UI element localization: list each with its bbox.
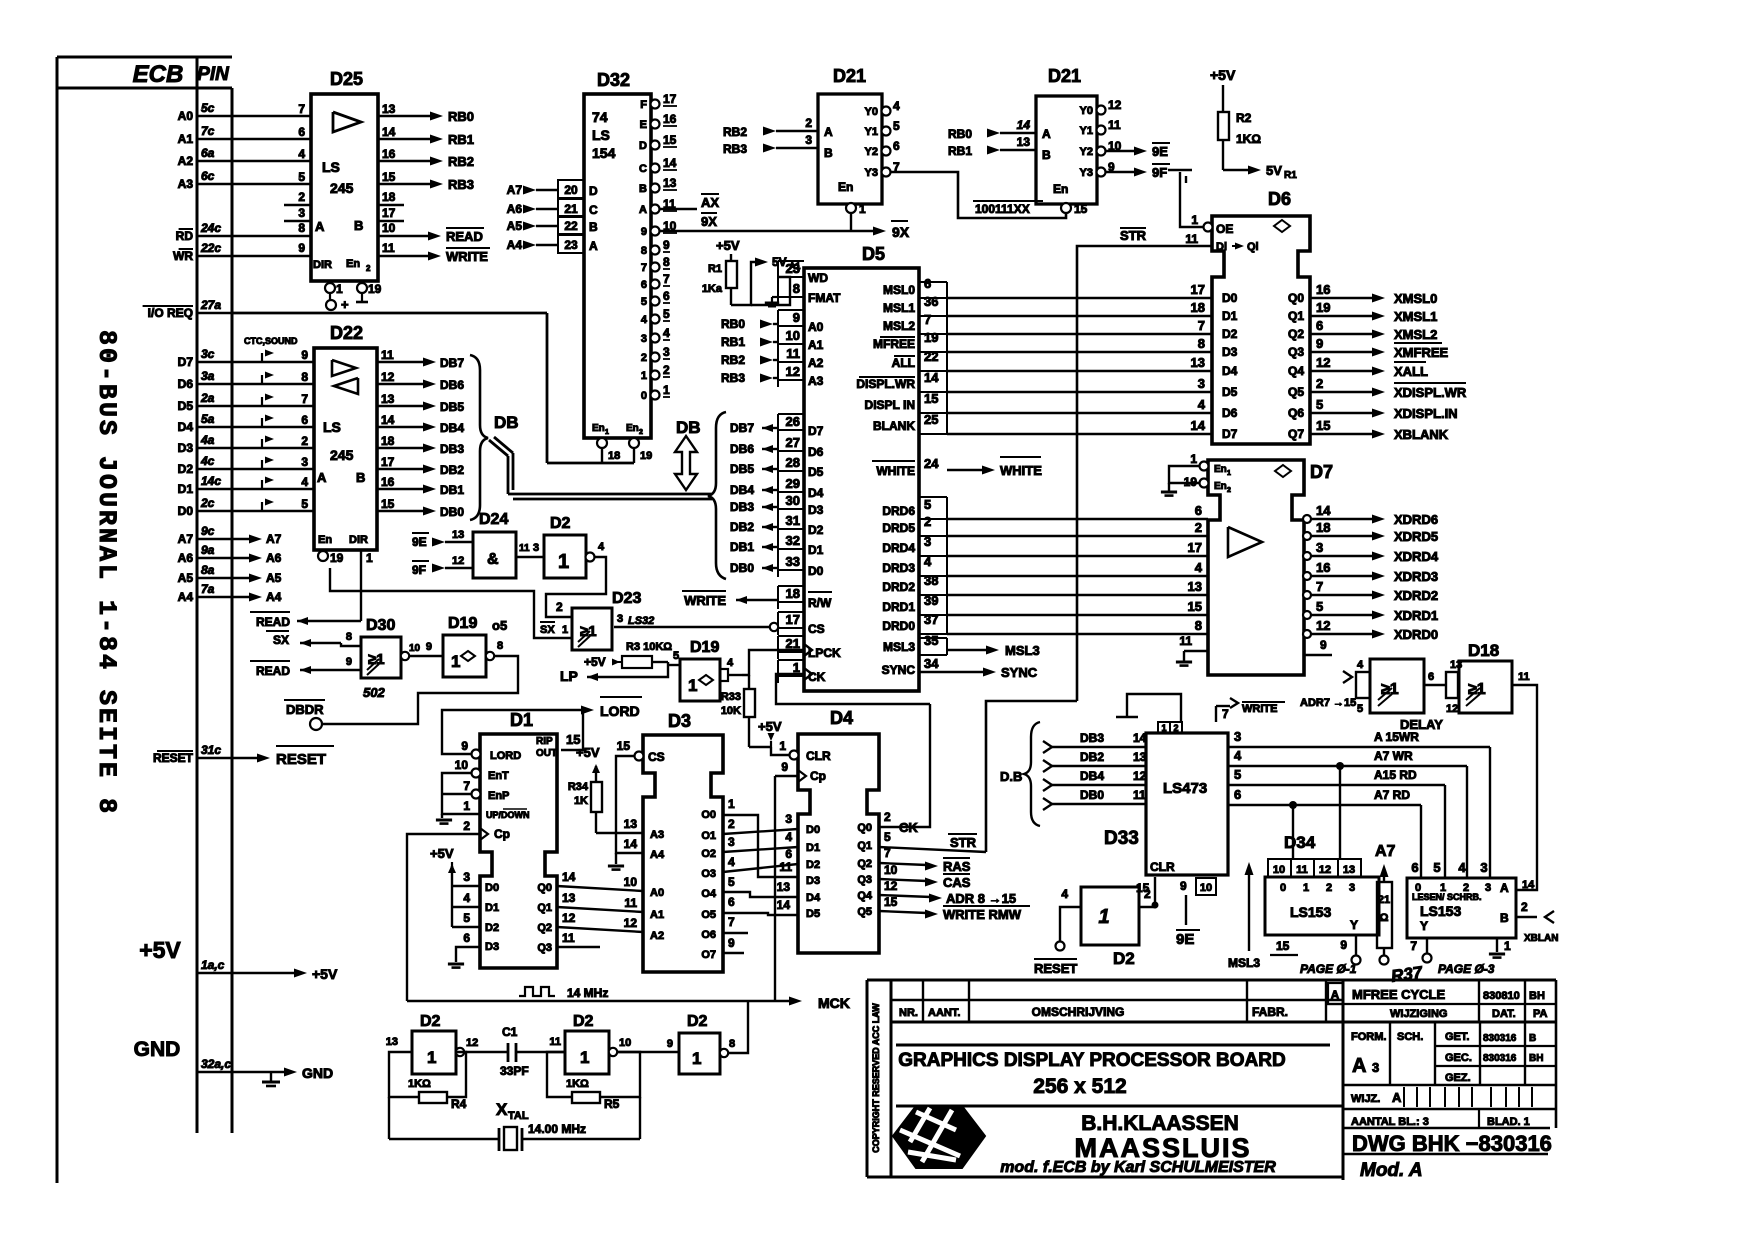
svg-text:15: 15 bbox=[1316, 418, 1330, 433]
svg-text:D3: D3 bbox=[668, 711, 691, 731]
wire Q2 to A2 bbox=[557, 911, 643, 932]
svg-text:28: 28 bbox=[786, 455, 800, 470]
svg-text:GRAPHICS DISPLAY PROCESSOR: GRAPHICS DISPLAY PROCESSOR BOARD bbox=[898, 1050, 1285, 1071]
svg-text:D2: D2 bbox=[178, 462, 194, 476]
power +5V R2 bbox=[1210, 67, 1236, 112]
D19 out bbox=[486, 640, 503, 660]
svg-text:D1: D1 bbox=[510, 710, 533, 730]
svg-text:XMSL2: XMSL2 bbox=[1394, 327, 1437, 342]
svg-text:O2: O2 bbox=[701, 848, 716, 860]
svg-text:31: 31 bbox=[786, 513, 800, 528]
node D6 ECB pin 3a bbox=[178, 369, 232, 391]
svg-text:7: 7 bbox=[298, 102, 305, 116]
title main text bbox=[898, 1050, 1285, 1098]
wire D22 pin 16 to DB1 bbox=[377, 475, 464, 497]
svg-text:15: 15 bbox=[617, 739, 631, 753]
svg-text:DB5: DB5 bbox=[440, 400, 464, 414]
label ADR7-15 input bbox=[1300, 671, 1356, 709]
D3 O6 stub bbox=[723, 915, 748, 933]
svg-text:2: 2 bbox=[641, 352, 647, 364]
svg-text:3: 3 bbox=[463, 870, 470, 884]
wire O2 to D4 D1 bbox=[723, 830, 798, 852]
svg-text:D4: D4 bbox=[1222, 364, 1238, 378]
wire Q1 STR bbox=[879, 246, 1212, 852]
D32 output pins bbox=[639, 92, 677, 402]
svg-text:B: B bbox=[1500, 911, 1509, 925]
svg-text:A3: A3 bbox=[178, 177, 194, 191]
svg-text:19: 19 bbox=[368, 282, 382, 296]
svg-text:9: 9 bbox=[461, 739, 468, 753]
svg-text:Y3: Y3 bbox=[865, 167, 878, 179]
svg-text:D3: D3 bbox=[1222, 345, 1238, 359]
svg-text:Q4: Q4 bbox=[857, 890, 873, 902]
svg-text:CLR: CLR bbox=[806, 749, 831, 763]
D2 ff pin 2 to D33 CLR bbox=[1139, 877, 1159, 909]
svg-text:27a: 27a bbox=[200, 298, 221, 312]
wire D-bus to D22 pin 4 bbox=[232, 475, 314, 489]
svg-text:8: 8 bbox=[729, 1038, 735, 1050]
svg-text:WHITE: WHITE bbox=[1000, 463, 1042, 478]
svg-text:19: 19 bbox=[924, 330, 938, 345]
label R37 bbox=[1390, 963, 1425, 986]
svg-text:I/O REQ: I/O REQ bbox=[148, 306, 193, 320]
svg-text:RESET: RESET bbox=[276, 751, 326, 768]
svg-text:12: 12 bbox=[624, 916, 638, 930]
svg-text:LS473: LS473 bbox=[1163, 780, 1207, 797]
svg-text:3a: 3a bbox=[201, 369, 215, 383]
wire RD to D25 pin 8 bbox=[232, 221, 311, 236]
wire D25 pin 14 to RB1 bbox=[378, 125, 474, 147]
svg-text:+5V: +5V bbox=[139, 937, 181, 963]
svg-text:5: 5 bbox=[1316, 599, 1323, 614]
svg-text:En: En bbox=[318, 534, 332, 546]
svg-text:5: 5 bbox=[673, 650, 679, 662]
D22 DIR pin 1 bbox=[361, 550, 373, 565]
svg-text:A4: A4 bbox=[266, 590, 282, 604]
DB bus double line to D5 brace bbox=[489, 437, 712, 499]
wire delay mid bbox=[1424, 671, 1447, 685]
wire Q3 CAS bbox=[879, 863, 971, 890]
svg-text:9: 9 bbox=[641, 226, 647, 238]
svg-text:4: 4 bbox=[728, 855, 735, 869]
svg-text:A: A bbox=[1042, 127, 1051, 141]
ground D1 D3pin bbox=[448, 947, 480, 968]
resistor R34 1K bbox=[568, 781, 602, 833]
gate D2 osc2 bbox=[549, 1013, 631, 1074]
svg-text:D6: D6 bbox=[1222, 406, 1238, 420]
node D4 ECB pin 5a bbox=[178, 412, 232, 434]
svg-text:13: 13 bbox=[1133, 750, 1147, 764]
svg-text:AANTAL BL.: 3: AANTAL BL.: 3 bbox=[1351, 1116, 1429, 1128]
node A0 ECB pin 5c bbox=[178, 101, 232, 123]
svg-text:9: 9 bbox=[1316, 336, 1323, 351]
svg-text:BH: BH bbox=[1529, 1053, 1543, 1064]
svg-text:13: 13 bbox=[382, 102, 396, 116]
D1 Q3 stub bbox=[557, 931, 600, 947]
svg-text:O3: O3 bbox=[701, 868, 716, 880]
journal side text bbox=[92, 330, 121, 816]
svg-text:1: 1 bbox=[1161, 723, 1166, 733]
svg-text:1: 1 bbox=[793, 660, 800, 675]
svg-text:LP: LP bbox=[560, 668, 578, 684]
svg-text:DB0: DB0 bbox=[1080, 788, 1104, 802]
svg-text:DRD6: DRD6 bbox=[882, 504, 915, 518]
gate D23 OR bbox=[572, 590, 641, 650]
svg-text:14 MHz: 14 MHz bbox=[567, 986, 608, 1000]
svg-text:1: 1 bbox=[779, 739, 786, 753]
svg-text:4: 4 bbox=[1195, 560, 1203, 575]
wire D24 to D2inv bbox=[516, 542, 544, 557]
svg-text:NR.: NR. bbox=[899, 1007, 918, 1019]
svg-text:WR: WR bbox=[173, 249, 193, 263]
svg-text:RB1: RB1 bbox=[721, 335, 745, 349]
svg-text:D24: D24 bbox=[479, 511, 508, 528]
svg-text:DB6: DB6 bbox=[440, 378, 464, 392]
svg-text:A0: A0 bbox=[178, 109, 194, 123]
svg-text:D2: D2 bbox=[485, 922, 499, 934]
svg-text:4: 4 bbox=[1061, 887, 1068, 901]
D6 Di pin 11 bbox=[1185, 232, 1198, 246]
svg-text:GET.: GET. bbox=[1445, 1031, 1469, 1043]
title block grid left bbox=[867, 980, 1556, 1180]
svg-text:1: 1 bbox=[562, 624, 568, 636]
D34 Y out pin 9 bbox=[1340, 935, 1360, 965]
svg-text:A2: A2 bbox=[808, 356, 824, 370]
net label 100111XX bbox=[973, 201, 1043, 216]
label MSL3 up bbox=[1228, 862, 1260, 970]
wire MCK line bbox=[407, 995, 850, 1011]
svg-text:1KΩ: 1KΩ bbox=[566, 1078, 589, 1090]
svg-text:5V: 5V bbox=[1266, 163, 1282, 178]
svg-text:B: B bbox=[1042, 148, 1051, 162]
node 1a,c ECB pin 1a,c bbox=[197, 958, 232, 973]
svg-text:XDRD6: XDRD6 bbox=[1394, 512, 1438, 527]
svg-text:Q1: Q1 bbox=[1288, 309, 1304, 323]
svg-text:A2: A2 bbox=[178, 154, 194, 168]
svg-text:18: 18 bbox=[382, 190, 396, 204]
svg-text:2: 2 bbox=[1463, 882, 1469, 894]
svg-text:5a: 5a bbox=[201, 412, 215, 426]
wire to D34 pin13 bbox=[1339, 766, 1341, 859]
svg-text:1: 1 bbox=[1190, 452, 1197, 466]
D7 pin 11 ground bbox=[1176, 634, 1208, 666]
svg-text:XDRD2: XDRD2 bbox=[1394, 588, 1438, 603]
svg-text:16: 16 bbox=[382, 147, 396, 161]
gate D30 OR bbox=[361, 617, 401, 700]
wire D25 pin 16 to RB2 bbox=[378, 147, 474, 169]
svg-text:2: 2 bbox=[366, 264, 371, 273]
svg-text:5: 5 bbox=[641, 296, 647, 308]
svg-text:PAGE Ø-3: PAGE Ø-3 bbox=[1438, 962, 1495, 976]
svg-text:17: 17 bbox=[1188, 540, 1202, 555]
wire O4 to D4 D4 bbox=[723, 875, 798, 897]
resistor R33 10K bbox=[721, 675, 755, 747]
wire RB1 to D5 pin 10 bbox=[721, 335, 778, 349]
svg-text:21: 21 bbox=[564, 202, 578, 216]
svg-text:A: A bbox=[1392, 1090, 1402, 1105]
svg-text:D5: D5 bbox=[808, 465, 824, 479]
svg-text:OUT: OUT bbox=[536, 748, 557, 759]
svg-text:6: 6 bbox=[301, 413, 308, 427]
svg-text:2: 2 bbox=[1195, 520, 1202, 535]
svg-text:Cp: Cp bbox=[810, 769, 826, 783]
wire +5V ECB out bbox=[232, 966, 338, 982]
svg-text:D6: D6 bbox=[1268, 189, 1291, 209]
svg-text:DWG BHK −830316: DWG BHK −830316 bbox=[1352, 1131, 1552, 1156]
svg-text:D32: D32 bbox=[597, 70, 630, 90]
svg-text:4: 4 bbox=[663, 326, 670, 340]
svg-text:D7: D7 bbox=[1310, 462, 1333, 482]
svg-text:DB7: DB7 bbox=[440, 356, 464, 370]
svg-text:7: 7 bbox=[1222, 707, 1229, 721]
wire Y3 to 9F bbox=[1106, 164, 1170, 180]
svg-text:DB: DB bbox=[676, 418, 701, 437]
svg-text:9: 9 bbox=[1340, 938, 1347, 952]
svg-text:Cp: Cp bbox=[494, 827, 510, 841]
D5 pin 34 SYNC bbox=[882, 656, 940, 677]
svg-text:3: 3 bbox=[1372, 1060, 1379, 1075]
svg-text:17: 17 bbox=[786, 612, 800, 627]
wire ECB A4 stub bbox=[232, 590, 282, 604]
net STR at D6 bbox=[1120, 228, 1147, 243]
logo hexagon bbox=[893, 1106, 985, 1168]
svg-text:2: 2 bbox=[298, 190, 305, 204]
svg-text:D18: D18 bbox=[1468, 641, 1499, 660]
svg-text:DB4: DB4 bbox=[1080, 769, 1104, 783]
svg-text:WIJZIGING: WIJZIGING bbox=[1390, 1008, 1447, 1020]
svg-text:B: B bbox=[356, 470, 365, 485]
IC LS153 second box bbox=[1407, 878, 1516, 938]
svg-text:D2: D2 bbox=[687, 1013, 708, 1030]
svg-text:12: 12 bbox=[884, 879, 898, 893]
svg-text:1: 1 bbox=[427, 1048, 436, 1067]
wire A-bus to D25 pin 7 bbox=[232, 102, 311, 116]
svg-text:2: 2 bbox=[1227, 487, 1231, 494]
svg-text:DB1: DB1 bbox=[440, 483, 464, 497]
svg-text:R1: R1 bbox=[708, 263, 722, 275]
D33 DB inputs bbox=[1000, 722, 1147, 826]
svg-text:A2: A2 bbox=[650, 930, 664, 942]
svg-text:1: 1 bbox=[451, 652, 460, 671]
wire R/W to WRITE label bbox=[682, 591, 778, 608]
svg-text:26: 26 bbox=[786, 414, 800, 429]
svg-text:14: 14 bbox=[1522, 879, 1535, 891]
svg-text:4: 4 bbox=[463, 891, 470, 905]
svg-text:C1: C1 bbox=[502, 1025, 518, 1039]
svg-text:D2: D2 bbox=[573, 1013, 594, 1030]
svg-text:2: 2 bbox=[1521, 900, 1528, 914]
svg-text:RB2: RB2 bbox=[448, 154, 474, 169]
svg-text:1: 1 bbox=[1191, 213, 1198, 227]
svg-text:SX: SX bbox=[540, 624, 555, 636]
svg-text:D21: D21 bbox=[833, 66, 866, 86]
svg-text:A4: A4 bbox=[178, 590, 194, 604]
svg-text:CS: CS bbox=[648, 750, 665, 764]
D6 inside labels bbox=[1222, 291, 1304, 441]
svg-text:O7: O7 bbox=[701, 949, 716, 961]
svg-text:2: 2 bbox=[1316, 376, 1323, 391]
svg-text:RESET: RESET bbox=[1034, 961, 1077, 976]
svg-text:D2: D2 bbox=[806, 859, 820, 871]
D19 second out pin4 bbox=[720, 657, 742, 681]
svg-text:11: 11 bbox=[381, 348, 394, 362]
D32 En2 pin 19 bbox=[626, 423, 652, 463]
ground FMAT bbox=[765, 297, 779, 306]
wire En/SX to D23 pin1 bbox=[330, 568, 572, 638]
D6 outputs XMSL..XBLANK bbox=[1310, 282, 1467, 442]
svg-text:A: A bbox=[1331, 988, 1340, 1002]
D5 right pins DRD group bbox=[882, 497, 947, 634]
svg-text:7: 7 bbox=[1316, 579, 1323, 594]
D25 DIR pin 1 pull bbox=[325, 282, 349, 312]
wire R1 node to 5VR1 label bbox=[731, 255, 801, 305]
svg-text:6c: 6c bbox=[201, 169, 215, 183]
svg-text:OE: OE bbox=[1216, 222, 1233, 236]
svg-text:15: 15 bbox=[924, 391, 938, 406]
svg-text:13: 13 bbox=[381, 392, 395, 406]
svg-text:DB0: DB0 bbox=[440, 505, 464, 519]
svg-text:7: 7 bbox=[1198, 318, 1205, 333]
label CTC,SOUND bbox=[244, 336, 298, 346]
svg-text:RB3: RB3 bbox=[723, 142, 747, 156]
svg-text:8: 8 bbox=[298, 221, 305, 235]
svg-text:9: 9 bbox=[793, 310, 800, 325]
svg-text:A5: A5 bbox=[178, 571, 194, 585]
svg-text:LS153: LS153 bbox=[1290, 904, 1331, 920]
label GND ECB bbox=[134, 1038, 181, 1061]
power +5V D1 data bbox=[430, 846, 480, 945]
svg-text:RB0: RB0 bbox=[721, 317, 745, 331]
wire I/O REQ to D32 En bbox=[232, 313, 634, 463]
svg-text:16: 16 bbox=[1316, 560, 1330, 575]
resistor R1 1K bbox=[702, 261, 737, 305]
wire D-bus to D22 pin 3 bbox=[232, 455, 314, 469]
svg-text:RB0: RB0 bbox=[448, 109, 474, 124]
wire D22 pin 15 to DB0 bbox=[377, 497, 464, 519]
wire D22 pin 11 to DB7 bbox=[377, 348, 464, 370]
svg-text:4: 4 bbox=[785, 830, 792, 844]
svg-text:D25: D25 bbox=[330, 69, 363, 89]
IC D25 LS245 box bbox=[311, 69, 378, 281]
svg-text:13: 13 bbox=[777, 880, 791, 894]
svg-text:39: 39 bbox=[924, 593, 938, 608]
D34 pin 15 bbox=[1270, 939, 1298, 955]
svg-text:15: 15 bbox=[381, 497, 395, 511]
svg-text:21: 21 bbox=[1378, 894, 1390, 906]
svg-text:1: 1 bbox=[688, 676, 697, 695]
svg-text:D3: D3 bbox=[806, 875, 820, 887]
svg-text:13: 13 bbox=[562, 891, 576, 905]
svg-text:TAL: TAL bbox=[508, 1110, 529, 1122]
D32 En1 pin 18 bbox=[592, 423, 620, 463]
D22 En pin 19 bubble bbox=[318, 551, 344, 565]
wire osc2 to osc3 bbox=[617, 1051, 679, 1053]
svg-text:7: 7 bbox=[728, 915, 735, 929]
label 9X small bbox=[701, 213, 717, 229]
svg-text:12: 12 bbox=[1446, 703, 1458, 715]
node RESET ECB pin 31c bbox=[153, 743, 232, 765]
svg-text:DIR: DIR bbox=[349, 534, 368, 546]
svg-text:18: 18 bbox=[1191, 300, 1205, 315]
svg-text:MFREE: MFREE bbox=[873, 337, 915, 351]
svg-text:B: B bbox=[824, 146, 833, 160]
resistor R2 1K bbox=[1218, 111, 1261, 170]
svg-text:6: 6 bbox=[298, 125, 305, 139]
D33 pin 7 WRITE bbox=[1216, 698, 1285, 722]
svg-text:D0: D0 bbox=[178, 504, 194, 518]
svg-text:35: 35 bbox=[924, 633, 938, 648]
wire ECB A6 stub bbox=[232, 551, 282, 565]
svg-text:R2: R2 bbox=[1236, 111, 1252, 125]
wire O0 jog to D4 D3 bbox=[723, 797, 798, 877]
svg-text:5: 5 bbox=[1433, 860, 1440, 875]
svg-text:11: 11 bbox=[1518, 671, 1530, 683]
svg-text:6: 6 bbox=[1195, 503, 1202, 518]
svg-text:Q4: Q4 bbox=[1288, 364, 1304, 378]
svg-text:READ: READ bbox=[446, 229, 483, 244]
svg-text:17: 17 bbox=[382, 206, 396, 220]
node A6 ECB pin 9a bbox=[178, 543, 232, 565]
svg-text:34: 34 bbox=[924, 656, 939, 671]
svg-text:A3: A3 bbox=[650, 829, 664, 841]
svg-text:Q0: Q0 bbox=[537, 882, 552, 894]
svg-text:RIP: RIP bbox=[536, 736, 553, 747]
svg-text:9E: 9E bbox=[1176, 931, 1194, 948]
node A4 ECB pin 7a bbox=[178, 582, 232, 604]
svg-text:O5: O5 bbox=[701, 909, 716, 921]
svg-text:o5: o5 bbox=[492, 618, 507, 633]
wire D25 pin 13 to RB0 bbox=[378, 102, 474, 124]
svg-text:3c: 3c bbox=[201, 347, 215, 361]
svg-text:1: 1 bbox=[859, 202, 866, 216]
svg-text:6: 6 bbox=[728, 895, 735, 909]
svg-text:1: 1 bbox=[336, 282, 343, 296]
wire D-bus to D22 pin 5 bbox=[232, 497, 314, 511]
svg-text:EnP: EnP bbox=[488, 790, 509, 802]
svg-text:9E: 9E bbox=[412, 535, 427, 549]
resistor R37 bbox=[1377, 882, 1392, 965]
svg-text:DRD4: DRD4 bbox=[882, 541, 915, 555]
svg-text:9F: 9F bbox=[1152, 165, 1167, 180]
svg-text:GEC.: GEC. bbox=[1445, 1052, 1472, 1064]
power +5V R1 bbox=[716, 238, 740, 261]
svg-text:B: B bbox=[354, 218, 363, 233]
D1 pin bubbles bbox=[455, 739, 488, 840]
svg-text:LESEN/ SCHRB.: LESEN/ SCHRB. bbox=[1412, 892, 1482, 902]
node D3 ECB pin 4a bbox=[178, 433, 232, 455]
svg-text:10: 10 bbox=[1273, 864, 1285, 876]
svg-text:16: 16 bbox=[663, 112, 677, 126]
wire O3 to D4 D2 bbox=[723, 847, 798, 872]
svg-text:3: 3 bbox=[728, 835, 735, 849]
svg-text:13: 13 bbox=[1191, 355, 1205, 370]
svg-text:Q7: Q7 bbox=[1288, 427, 1304, 441]
wire RB1 to D21 pin 13 bbox=[948, 135, 1036, 158]
svg-text:4: 4 bbox=[641, 314, 648, 326]
svg-text:R34: R34 bbox=[568, 781, 589, 793]
node A2 ECB pin 6a bbox=[178, 146, 232, 168]
wire 9E from D33 bbox=[1176, 895, 1200, 948]
svg-text:D.B: D.B bbox=[1000, 769, 1022, 784]
svg-text:En: En bbox=[1214, 481, 1227, 492]
D6 OE pin 1 bbox=[1191, 213, 1212, 232]
svg-text:7: 7 bbox=[663, 272, 670, 286]
svg-text:Q2: Q2 bbox=[857, 858, 872, 870]
svg-text:32: 32 bbox=[786, 533, 800, 548]
svg-text:D30: D30 bbox=[366, 617, 395, 634]
svg-text:Q3: Q3 bbox=[537, 942, 552, 954]
svg-text:3: 3 bbox=[924, 534, 931, 549]
